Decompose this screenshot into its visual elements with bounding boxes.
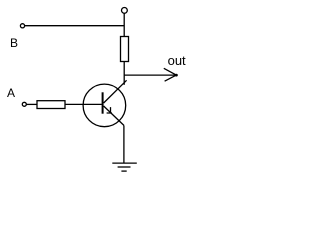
terminal A [22, 102, 26, 106]
ground bar 3 [121, 170, 126, 172]
wire R1 to collector node [123, 62, 125, 85]
resistor R1 (collector, vertical) [121, 37, 129, 62]
transistor Q1 emitter lead [104, 106, 124, 125]
wire R2 to base [65, 103, 102, 105]
wire emitter to ground [123, 125, 125, 163]
wire B to collector rail [25, 25, 125, 27]
ground bar 2 [118, 166, 131, 168]
svg-text:B: B [10, 36, 18, 50]
terminal B [20, 24, 24, 28]
transistor Q1 emitter arrow [107, 107, 112, 113]
wire A to resistor R2 [26, 103, 37, 105]
wire Vcc to resistor R1 [123, 13, 125, 36]
resistor R2 (base, horizontal) [37, 101, 65, 109]
transistor Q1 collector lead [104, 80, 127, 103]
out arrow tip dot [175, 74, 178, 77]
transistor Q1 base bar [102, 92, 104, 113]
out arrowhead [164, 68, 177, 81]
ground bar 1 [112, 162, 137, 164]
terminal Vcc (top right) [122, 7, 128, 13]
svg-text:out: out [168, 53, 186, 68]
svg-text:A: A [7, 86, 15, 100]
transistor Q1 body [83, 84, 126, 127]
node out wire [124, 74, 176, 76]
